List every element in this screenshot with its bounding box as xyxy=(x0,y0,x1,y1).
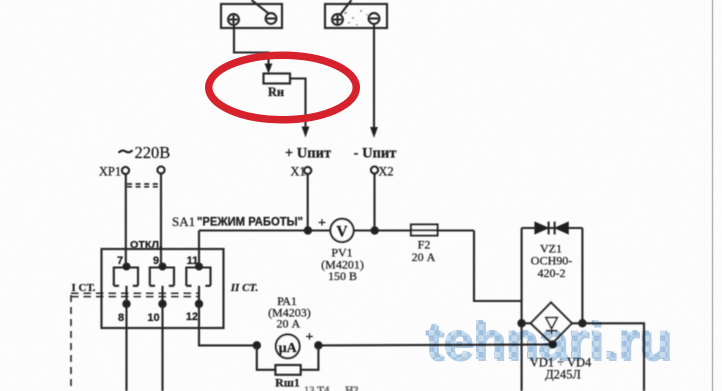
arrow -Upit xyxy=(371,128,377,137)
wire to GB2 plus (from top) xyxy=(340,0,352,15)
node bridge right xyxy=(579,320,585,326)
node ammeter right xyxy=(315,342,321,348)
terminal X2 xyxy=(371,166,378,173)
bridge VD1-VD4 xyxy=(522,303,583,344)
contact 9-10 xyxy=(150,264,174,308)
node X1 junction xyxy=(305,227,311,233)
switch coupling dashed rows xyxy=(71,293,200,296)
fuse F2 xyxy=(411,225,438,236)
node X2 junction xyxy=(372,227,378,233)
bus voltmeter to corner xyxy=(354,229,474,231)
contact 7-8 xyxy=(114,264,138,308)
wire VZ1 left / AC leg down xyxy=(521,228,523,391)
plug XP1 pins xyxy=(122,167,129,174)
wire ammeter to bridge bottom xyxy=(318,343,552,346)
wire contact 11 up to bus xyxy=(198,231,200,267)
battery terminal block GB1 xyxy=(221,4,282,28)
wire contact 10 down xyxy=(161,304,163,391)
battery terminal block GB2 xyxy=(325,4,387,28)
node bridge bottom xyxy=(550,341,556,347)
bus to voltmeter xyxy=(199,229,331,231)
node ammeter left xyxy=(254,342,260,348)
contact 11-12 xyxy=(186,264,210,308)
label ~220V xyxy=(119,150,133,153)
shunt loop wires xyxy=(257,345,319,369)
wire XP1 pin1 down xyxy=(125,174,127,266)
wire contact 12 to ammeter xyxy=(199,304,257,346)
wire Rn to +Upit arrow xyxy=(290,79,306,128)
wire contact 8 down xyxy=(125,304,127,391)
shunt resistor Rsh1 xyxy=(275,365,300,375)
XP1 coupling dashes xyxy=(127,184,159,187)
ammeter PA1 xyxy=(276,334,300,358)
resistor Rn xyxy=(264,74,291,84)
svg-text:tehnari.ru: tehnari.ru xyxy=(425,311,671,371)
arrow +Upit xyxy=(302,127,308,136)
arrow into Rn xyxy=(265,64,271,73)
wire VZ1 right down xyxy=(581,228,583,323)
terminal X1 xyxy=(304,167,311,174)
suppressor VZ1 xyxy=(522,222,583,235)
switch SA1 box xyxy=(102,249,224,328)
highlight ellipse (red marker) xyxy=(209,55,357,119)
wire X1 down xyxy=(307,174,309,230)
wire XP1 pin2 down xyxy=(160,174,162,267)
wire bridge right to edge leg xyxy=(582,323,644,391)
stage I dashed boundary xyxy=(70,295,72,391)
wire X2 down xyxy=(373,174,375,231)
wire GB2- to -Upit arrow xyxy=(373,25,375,129)
watermark tehnari.ru xyxy=(425,311,674,373)
wire to GB1 minus (from top) xyxy=(252,0,270,14)
voltmeter PV1 xyxy=(330,219,353,242)
node bridge left xyxy=(518,320,524,326)
wire corner to bridge left xyxy=(474,231,522,302)
wire GB1+ to Rn xyxy=(234,25,269,65)
